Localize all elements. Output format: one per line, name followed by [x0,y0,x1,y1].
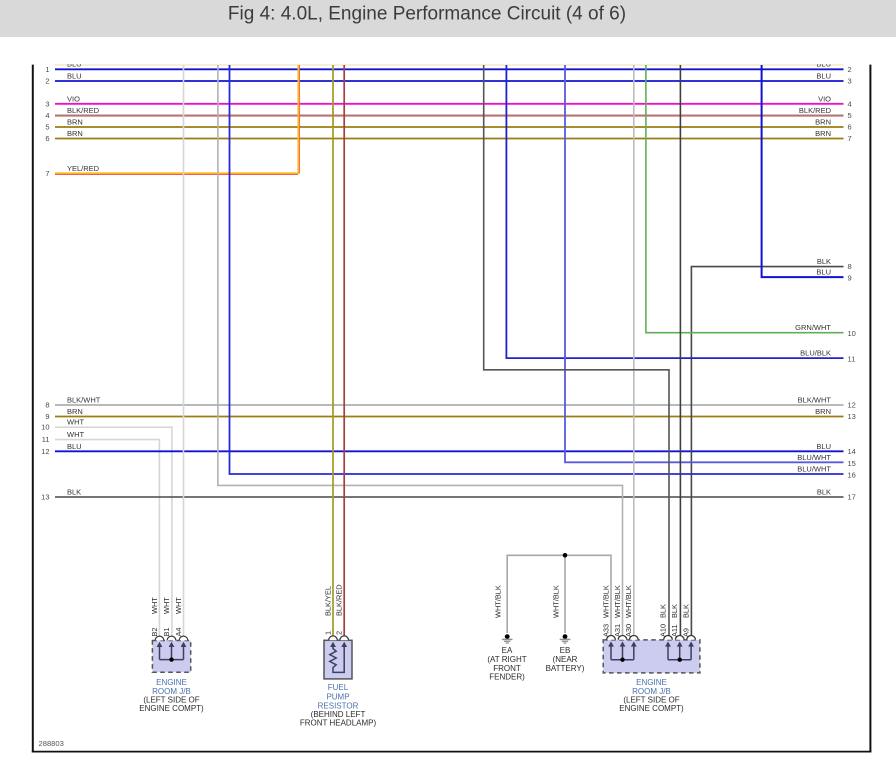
svg-text:WHT/BLK: WHT/BLK [551,585,560,618]
wire BLU/WHT right pin 15 [565,65,856,468]
svg-text:A33: A33 [601,624,610,637]
svg-text:5: 5 [45,122,49,131]
svg-text:9: 9 [45,412,49,421]
wire 1 label clipped right [816,60,831,69]
svg-text:BRN: BRN [815,129,831,138]
svg-text:2: 2 [848,65,852,74]
svg-text:ENGINE: ENGINE [636,678,667,687]
svg-text:BLK/RED: BLK/RED [799,106,832,115]
svg-text:16: 16 [848,471,856,480]
wire 1 BLU [55,68,844,70]
svg-text:2: 2 [335,631,344,635]
svg-text:BRN: BRN [67,117,83,126]
svg-text:BLU/WHT: BLU/WHT [797,453,831,462]
svg-text:BATTERY): BATTERY) [546,664,585,673]
svg-text:Fig 4: 4.0L, Engine Performanc: Fig 4: 4.0L, Engine Performance Circuit … [228,4,626,25]
svg-text:BLK: BLK [670,604,679,618]
wire BLU/BLK right pin 11 [506,65,855,364]
svg-text:3: 3 [848,77,852,86]
ground net EB drop [564,555,566,633]
svg-text:(AT RIGHT: (AT RIGHT [487,655,526,664]
wire WHT/BLK vertical to A30 [633,65,635,636]
svg-text:14: 14 [848,447,856,456]
wire 1 label clipped left [67,60,82,69]
svg-text:BRN: BRN [815,117,831,126]
svg-text:WHT/BLK: WHT/BLK [613,585,622,618]
svg-text:12: 12 [41,447,49,456]
svg-text:ENGINE COMPT): ENGINE COMPT) [619,704,684,713]
svg-text:4: 4 [45,111,49,120]
svg-text:EA: EA [502,646,513,655]
svg-text:BLK: BLK [681,604,690,618]
svg-text:BLU: BLU [816,442,831,451]
wire BLK/RED vertical to resistor pin 2 [343,65,345,636]
wire BLK right pin 8 to A9 [691,257,851,636]
wire 9 BRN [45,407,856,421]
svg-text:BRN: BRN [67,129,83,138]
wire 12 BLU [41,442,856,456]
svg-text:A9: A9 [681,628,690,637]
wire GRN/WHT right pin 10 [646,65,856,338]
svg-text:A31: A31 [613,624,622,637]
U2 name [619,678,684,713]
svg-text:BLK: BLK [817,257,831,266]
svg-text:12: 12 [848,400,856,409]
svg-text:1: 1 [323,631,332,635]
svg-text:A10: A10 [658,624,667,637]
svg-text:BRN: BRN [67,407,83,416]
svg-text:EB: EB [560,646,571,655]
svg-text:7: 7 [848,134,852,143]
svg-text:10: 10 [41,423,49,432]
svg-text:B1: B1 [162,627,171,636]
wire 13 BLK [41,488,856,502]
wire 7 YEL/RED horizontal [45,164,299,178]
wire 0 cropped WHT line at top [55,64,844,66]
svg-text:BLU: BLU [816,72,831,81]
svg-text:13: 13 [41,493,49,502]
U1 pin arcs [155,636,188,640]
U2 internal bus arrows group 2 [668,645,691,659]
wire BLU/WHT right pin 16 [230,65,856,480]
svg-text:VIO: VIO [67,94,80,103]
U2 internal bus arrows group 1 [611,645,634,659]
svg-text:5: 5 [848,111,852,120]
svg-text:WHT: WHT [162,597,171,614]
svg-text:A4: A4 [174,627,183,636]
ground net WHT/BLK EA-EB-A33 [507,555,611,636]
svg-text:BLK: BLK [658,604,667,618]
svg-text:BLU: BLU [816,268,831,277]
wire 10 WHT to B1 [41,418,172,636]
ground EB symbol [560,634,571,643]
svg-text:WHT: WHT [150,597,159,614]
wire 2 BLU [45,72,851,86]
svg-text:15: 15 [848,459,856,468]
svg-text:10: 10 [848,329,856,338]
svg-text:VIO: VIO [818,94,831,103]
wire WHT/BLK route to A31 [218,65,623,636]
svg-text:(NEAR: (NEAR [553,655,578,664]
svg-text:WHT/BLK: WHT/BLK [494,585,503,618]
U2 junction dot group 1 [620,658,624,662]
U2 pin arcs [607,635,696,639]
svg-text:8: 8 [848,262,852,271]
svg-text:BLK/RED: BLK/RED [67,106,100,115]
connector U1 engine room J/B left box [152,641,190,673]
U1 name [139,678,204,713]
svg-text:WHT/BLK: WHT/BLK [624,585,633,618]
svg-text:3: 3 [45,99,49,108]
svg-text:FRONT HEADLAMP): FRONT HEADLAMP) [300,718,377,727]
wire BLU right pin 9 [762,65,852,283]
frame left border [32,65,34,753]
svg-text:8: 8 [45,400,49,409]
svg-text:WHT: WHT [67,418,84,427]
U1 junction dot [169,657,173,661]
wire BLK/YEL vertical to resistor pin 1 [332,65,334,636]
U2 junction dot group 2 [678,658,682,662]
R1 pin arcs [329,636,349,640]
title bar [0,0,896,37]
wire 7 YEL/RED vertical riser [298,65,299,174]
svg-text:BLK: BLK [817,488,831,497]
svg-text:BLK/RED: BLK/RED [335,584,344,616]
svg-text:9: 9 [848,274,852,283]
svg-text:7: 7 [45,169,49,178]
svg-text:PUMP: PUMP [326,692,349,701]
ground EA symbol [502,634,513,643]
wire 8 BLK/WHT [45,395,856,409]
svg-text:FUEL: FUEL [328,683,349,692]
ground EB label [546,646,585,673]
wire 6 BRN [45,129,851,143]
svg-text:4: 4 [848,99,852,108]
svg-text:ENGINE COMPT): ENGINE COMPT) [139,704,204,713]
svg-text:BLK/YEL: BLK/YEL [323,586,332,616]
svg-text:11: 11 [848,355,856,364]
svg-text:BLU/WHT: BLU/WHT [797,465,831,474]
svg-text:BLK/WHT: BLK/WHT [798,395,832,404]
svg-text:6: 6 [848,122,852,131]
svg-text:11: 11 [42,435,50,444]
connector U2 engine room J/B right box [603,640,700,673]
wire 4 BLK/RED [45,106,851,120]
svg-text:BLK/WHT: BLK/WHT [67,395,101,404]
R1 internal arrows [330,642,347,647]
svg-text:2: 2 [45,77,49,86]
wire 3 VIO [45,94,851,108]
svg-text:BLU/BLK: BLU/BLK [800,349,831,358]
svg-text:A30: A30 [624,624,633,637]
svg-text:WHT/BLK: WHT/BLK [601,585,610,618]
svg-text:288803: 288803 [39,739,64,748]
svg-text:BLK: BLK [67,488,81,497]
wire WHT vertical to A4 [183,65,185,636]
svg-text:A11: A11 [670,624,679,637]
R1 resistor zigzag element [330,646,344,673]
svg-text:FENDER): FENDER) [489,673,525,682]
R1 name [300,683,377,727]
ground EA label [487,646,526,682]
svg-text:WHT: WHT [67,430,84,439]
svg-text:13: 13 [848,412,856,421]
svg-text:1: 1 [45,65,49,74]
svg-text:B2: B2 [150,627,159,636]
svg-text:BRN: BRN [815,407,831,416]
wire 11 WHT to B2 [42,430,160,636]
resistor R1 fuel pump resistor box [324,640,352,679]
svg-text:17: 17 [848,493,856,502]
wire BLK vertical to A11 [679,65,681,636]
svg-text:6: 6 [45,134,49,143]
svg-text:GRN/WHT: GRN/WHT [795,323,831,332]
svg-text:BLU: BLU [67,442,82,451]
svg-text:WHT: WHT [174,597,183,614]
svg-text:YEL/RED: YEL/RED [67,164,100,173]
svg-text:BLU: BLU [67,72,82,81]
frame bottom border [32,751,872,753]
wire BLK route to A10 [484,65,669,636]
svg-text:ENGINE: ENGINE [156,678,187,687]
wire 5 BRN [45,117,851,131]
junction dot at EB tap [563,553,568,558]
U1 internal bus arrows [160,646,184,660]
frame right border [869,65,871,753]
